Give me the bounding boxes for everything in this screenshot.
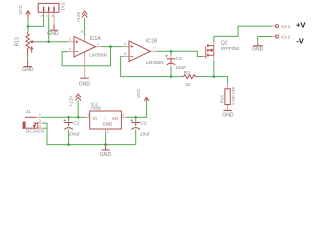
svg-text:6: 6 [124,52,126,56]
svg-text:GND: GND [222,113,234,119]
svg-text:-: - [104,115,106,120]
svg-text:LM358N: LM358N [146,60,164,65]
svg-text:2: 2 [39,119,41,123]
svg-text:IRFP250: IRFP250 [221,46,240,51]
svg-text:1: 1 [39,113,41,117]
svg-text:X1-1: X1-1 [281,24,291,29]
svg-text:2: 2 [69,48,71,52]
svg-text:7809: 7809 [91,106,102,111]
svg-text:0.33R 10W: 0.33R 10W [231,86,235,105]
svg-text:LM358N: LM358N [89,52,107,57]
svg-text:+12V: +12V [76,11,81,23]
svg-text:VI: VI [93,116,97,121]
svg-text:-V: -V [296,36,305,45]
svg-text:+12V: +12V [68,95,73,107]
svg-text:10uf: 10uf [140,131,150,137]
svg-text:C2: C2 [140,120,146,126]
svg-text:1: 1 [40,15,44,17]
svg-text:VCC: VCC [18,4,23,14]
svg-text:3: 3 [51,15,55,17]
svg-text:VCC: VCC [136,88,141,98]
svg-text:R13: R13 [14,37,20,46]
svg-text:SV1: SV1 [61,2,66,11]
svg-text:1: 1 [97,42,99,46]
svg-text:GND: GND [22,67,34,73]
svg-text:5: 5 [124,42,126,46]
svg-text:3: 3 [122,113,124,117]
svg-text:8: 8 [81,29,83,33]
svg-text:GND: GND [100,152,112,158]
svg-text:2: 2 [107,130,109,134]
svg-text:X1-2: X1-2 [281,34,291,39]
svg-text:R3: R3 [184,70,190,75]
svg-text:GND: GND [47,31,59,37]
svg-text:GND: GND [252,47,264,53]
svg-text:GND: GND [103,121,113,126]
svg-text:1K: 1K [185,82,192,87]
svg-text:3: 3 [39,124,41,128]
svg-text:2: 2 [45,15,49,17]
svg-text:100uf: 100uf [68,131,81,137]
svg-text:C1: C1 [73,120,79,126]
svg-text:GND: GND [79,82,91,88]
svg-text:VO: VO [112,116,119,121]
svg-text:R14: R14 [220,95,225,104]
svg-text:7: 7 [153,47,155,51]
svg-text:IC1A: IC1A [90,36,102,42]
svg-text:DCJACK: DCJACK [26,129,46,134]
svg-text:IC1B: IC1B [146,39,158,45]
svg-text:3: 3 [69,38,71,42]
svg-text:+V: +V [296,20,306,29]
svg-text:C3: C3 [176,56,182,62]
svg-text:J1: J1 [26,109,31,114]
svg-text:1: 1 [87,113,89,117]
